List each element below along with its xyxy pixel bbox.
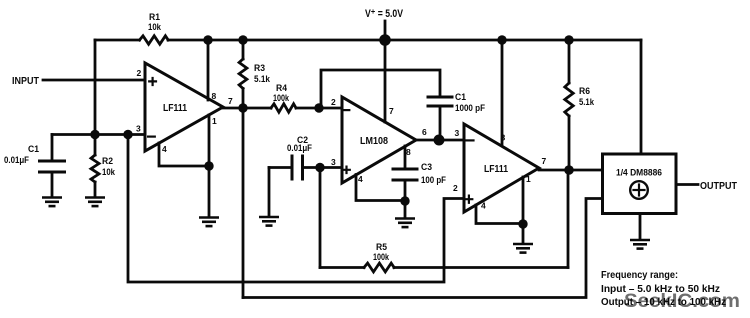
svg-text:Output – 10 kHz to 100 kHz: Output – 10 kHz to 100 kHz [601, 296, 726, 308]
svg-text:1: 1 [212, 116, 217, 126]
svg-text:R2: R2 [102, 156, 113, 167]
svg-text:8: 8 [501, 133, 506, 143]
svg-text:8: 8 [406, 147, 411, 157]
svg-text:7: 7 [228, 96, 233, 106]
svg-text:100k: 100k [273, 93, 290, 104]
svg-text:C1: C1 [455, 92, 467, 103]
svg-text:INPUT: INPUT [12, 76, 39, 87]
svg-text:C3: C3 [421, 162, 432, 173]
svg-text:4: 4 [358, 174, 363, 184]
svg-text:100k: 100k [373, 252, 390, 263]
svg-text:2: 2 [453, 183, 458, 193]
svg-text:4: 4 [481, 201, 486, 211]
svg-text:10k: 10k [148, 22, 162, 33]
svg-text:3: 3 [331, 157, 336, 167]
svg-text:4: 4 [162, 144, 167, 154]
svg-text:C1: C1 [28, 144, 40, 155]
svg-text:V⁺ = 5.0V: V⁺ = 5.0V [365, 8, 404, 20]
svg-text:LF111: LF111 [163, 103, 187, 114]
svg-text:7: 7 [542, 156, 547, 166]
svg-text:8: 8 [212, 91, 217, 101]
svg-text:7: 7 [389, 106, 394, 116]
svg-text:1/4 DM8886: 1/4 DM8886 [616, 168, 662, 179]
svg-text:2: 2 [137, 68, 142, 78]
svg-text:1: 1 [526, 174, 531, 184]
svg-text:1000 pF: 1000 pF [455, 103, 485, 114]
svg-text:5.1k: 5.1k [254, 74, 271, 85]
svg-text:3: 3 [455, 128, 460, 138]
svg-text:LM108: LM108 [360, 136, 388, 147]
svg-text:R6: R6 [579, 86, 590, 97]
svg-text:10k: 10k [102, 167, 116, 178]
svg-text:R3: R3 [254, 63, 265, 74]
svg-text:100 pF: 100 pF [421, 175, 446, 186]
svg-text:OUTPUT: OUTPUT [700, 181, 737, 192]
svg-text:0.01μF: 0.01μF [4, 155, 29, 166]
svg-text:2: 2 [331, 97, 336, 107]
svg-text:5.1k: 5.1k [579, 97, 595, 108]
svg-text:6: 6 [422, 127, 427, 137]
svg-text:3: 3 [136, 124, 141, 134]
svg-text:Frequency range:: Frequency range: [601, 269, 678, 281]
svg-text:Input – 5.0 kHz to 50 kHz: Input – 5.0 kHz to 50 kHz [601, 283, 720, 295]
svg-text:0.01μF: 0.01μF [287, 143, 312, 154]
svg-text:LF111: LF111 [484, 164, 508, 175]
